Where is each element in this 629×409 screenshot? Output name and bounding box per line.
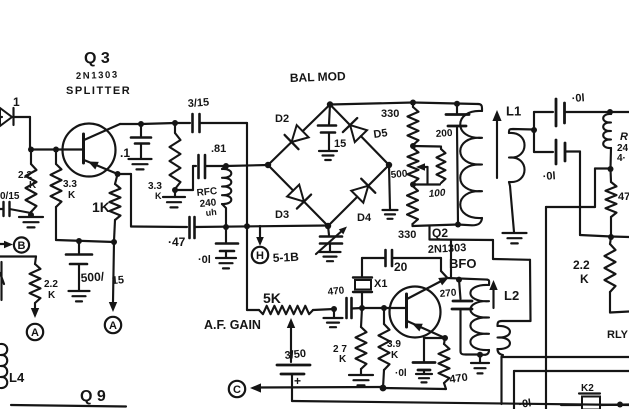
svg-text:0/15: 0/15 (0, 191, 20, 202)
label RFC (196, 186, 218, 199)
terminal C (229, 381, 245, 397)
node 47 bottom (608, 234, 614, 240)
label L1 (506, 104, 521, 119)
resistor 47 (606, 169, 617, 236)
ground under 470 cap node (324, 309, 343, 327)
wire .01 down to rail (579, 152, 581, 236)
wire emitter bottom line (131, 225, 187, 228)
diode D5 (top-right edge, points to top vertex) (330, 105, 389, 166)
label 3/50 (284, 348, 307, 362)
label uh (205, 207, 217, 218)
label 22 K (18, 170, 37, 191)
svg-text:100: 100 (428, 188, 446, 200)
label 3.3 K (63, 179, 77, 201)
node vertical feed junction (244, 223, 250, 229)
capacitor 0/15 (left edge) (0, 202, 31, 216)
svg-text:1: 1 (13, 95, 20, 109)
label L2 (504, 288, 519, 303)
transistor Q3 2N1303 (63, 124, 121, 177)
wire rail y357 (502, 356, 629, 358)
label 24 (cut) (617, 143, 629, 154)
svg-text:47: 47 (618, 191, 629, 203)
node 330/500 junction (410, 143, 416, 149)
node rail/330 top (410, 100, 416, 106)
capacitor 470 coupling (347, 298, 363, 318)
capacitor .01 (RFC bypass) (216, 227, 238, 257)
label D4 (357, 212, 372, 224)
wire collector feed path (546, 169, 611, 208)
svg-text:1K: 1K (92, 199, 110, 215)
label A.F. GAIN (204, 318, 261, 332)
svg-text:270: 270 (439, 288, 457, 300)
capacitor .81 series (193, 155, 226, 178)
svg-text:Q 9: Q 9 (80, 388, 106, 405)
svg-text:3.3: 3.3 (63, 179, 77, 190)
resistor 2.2K (right) (605, 237, 629, 313)
label 240 (199, 197, 217, 210)
label .01 (top right) (571, 92, 585, 105)
resistor 100 (437, 147, 446, 184)
ground under 22K (19, 217, 43, 227)
node bridge right vertex (386, 162, 392, 168)
svg-text:470: 470 (327, 285, 345, 298)
wire Q2 collector top (447, 278, 489, 285)
wire rail y236 (580, 235, 629, 237)
svg-text:·0l: ·0l (571, 92, 585, 105)
svg-text:·0l: ·0l (395, 368, 407, 379)
svg-text:.81: .81 (211, 143, 226, 155)
svg-text:L2: L2 (504, 288, 519, 303)
capacitor 20 (362, 250, 441, 266)
capacitor 500/15 electrolytic (66, 241, 92, 290)
node 200 cap top (454, 101, 460, 107)
svg-text:RLY: RLY (607, 329, 629, 341)
svg-text:2N1303: 2N1303 (76, 70, 119, 82)
label R (cut) (620, 131, 628, 143)
inductor L2 secondary (498, 321, 531, 357)
svg-text:·0l: ·0l (198, 254, 211, 266)
svg-text:D5: D5 (373, 127, 389, 141)
svg-text:3/15: 3/15 (187, 97, 209, 110)
label 470 (coupling cap) (327, 285, 345, 298)
label 330 (bottom) (398, 229, 416, 241)
node L2 primary bottom (477, 352, 483, 358)
ground under 27K (349, 375, 373, 385)
resistor 3.3K (Q3 base) (51, 150, 62, 241)
svg-text:Q2: Q2 (432, 226, 448, 240)
node RFC2 bottom (608, 166, 614, 172)
wire Q3 collector rail (120, 123, 190, 124)
node 3.3K top junction (53, 147, 59, 153)
transistor Q2 2N1303 BFO (390, 277, 450, 338)
svg-text:X1: X1 (374, 278, 387, 290)
node 500/15 top (76, 238, 82, 244)
inductor L4 (left edge, cut) (1, 344, 8, 388)
inductor RFC 240uh (222, 166, 231, 227)
svg-text:R: R (620, 131, 628, 143)
resistor 27K (356, 308, 367, 374)
wire arrow to terminal A1 (31, 303, 39, 318)
svg-text:·0l: ·0l (518, 397, 532, 409)
wire Q2 collector elbow (430, 240, 531, 322)
wire tank to 330 chain bottom (413, 225, 459, 227)
svg-text:500/: 500/ (80, 269, 105, 285)
label .01 (mid right) (542, 170, 556, 183)
svg-text:5K: 5K (263, 290, 281, 306)
svg-text:L4: L4 (9, 370, 25, 385)
svg-text:H: H (256, 250, 264, 262)
wire 500 bottom row (413, 183, 440, 185)
svg-text:D3: D3 (275, 209, 289, 221)
inductor L1 primary (458, 104, 482, 225)
label 2.2 K (right) (573, 258, 590, 286)
resistor 3.9K (379, 308, 390, 388)
diode D1 (input, partially cut at left edge) (0, 108, 30, 126)
diode D4 (bottom-right edge, points to right vertex) (328, 165, 389, 226)
label 1 (diode designator) (13, 95, 20, 109)
node 3.3K2 bottom (172, 187, 178, 193)
node RFC bottom (223, 224, 229, 230)
wire long vertical x546 (545, 207, 547, 409)
svg-text:3/50: 3/50 (284, 348, 307, 362)
inductor L2 primary (470, 285, 489, 355)
wire Q2 base (362, 307, 407, 309)
node .1 cap top (138, 121, 144, 127)
node RFC2 top (607, 109, 613, 115)
relay contact K2 (561, 394, 629, 409)
label .47 (168, 235, 186, 249)
wire .81 to bridge (226, 165, 268, 166)
label 2N1303 (Q2) (428, 242, 467, 256)
node bridge left vertex (265, 162, 271, 168)
label 5-1B (272, 250, 299, 265)
terminal B with arrow (0, 237, 29, 252)
label 500/15 (80, 269, 124, 287)
svg-text:K2: K2 (581, 383, 594, 394)
wire 20 cap to collector (441, 258, 447, 278)
node bridge bottom vertex (325, 223, 331, 229)
wire 3.3K2 to .81 (175, 166, 193, 190)
label .1 (120, 146, 130, 160)
ground under L1 secondary (503, 233, 527, 243)
label SPLITTER (66, 85, 131, 97)
label 500 (390, 169, 408, 181)
wire Q2-box tick (428, 226, 430, 240)
ground under 3.3K2 (163, 190, 185, 207)
node K2 right (617, 402, 623, 408)
wire bridge right vertex to ground (389, 165, 390, 209)
svg-text:Q 3: Q 3 (84, 50, 110, 67)
label D3 (275, 209, 289, 221)
node 22K bottom (28, 212, 34, 218)
resistor 5K pot (247, 306, 334, 314)
label 470 (emitter) (449, 372, 469, 386)
svg-text:·47: ·47 (168, 235, 186, 249)
svg-text:K: K (68, 190, 76, 201)
inductor L1 secondary (509, 129, 534, 232)
resistor 2.2K (B branch) (30, 264, 41, 303)
inductor RFC (right, 240/47uh) (603, 112, 611, 168)
node 500 bottom (410, 182, 416, 188)
resistor 470 (emitter) (439, 338, 450, 389)
ground under L2 (471, 355, 489, 373)
wire arrow to terminal H (256, 226, 264, 246)
wire bias bottom rail (56, 240, 114, 242)
ground under trimmer (320, 252, 341, 261)
wire bottom rail (292, 401, 629, 405)
wire Q3 emitter branch (118, 174, 131, 227)
capacitor 3/50 electrolytic (277, 365, 310, 401)
label 2.2 K (left) (44, 279, 58, 301)
label 5K (263, 290, 281, 306)
resistor 1K (110, 174, 121, 241)
terminal H (252, 247, 268, 263)
svg-text:D2: D2 (275, 113, 289, 125)
node bridge top vertex (327, 101, 333, 107)
label D5 (373, 127, 389, 141)
svg-text:500: 500 (390, 169, 408, 181)
wire L1 primary bottom (458, 223, 460, 225)
trimmer capacitor (bridge bottom) (316, 226, 347, 254)
label 20 (394, 260, 408, 274)
wire cap node vertical (533, 112, 535, 152)
crystal X1 (353, 258, 372, 308)
capacitor 15 (bridge top) (318, 105, 336, 151)
svg-text:4·: 4· (617, 153, 626, 164)
svg-text:K: K (29, 180, 37, 191)
label 0/15 (0, 191, 20, 202)
label D2 (275, 113, 289, 125)
svg-text:·0l: ·0l (542, 170, 556, 183)
svg-text:K: K (155, 191, 162, 201)
label L4 (9, 370, 25, 385)
label 200 (435, 128, 453, 140)
wire C-line to 470 bottom (383, 388, 446, 389)
node Q3 base junction A (28, 147, 34, 153)
svg-text:A.F. GAIN: A.F. GAIN (204, 318, 261, 332)
node X1 base junction (359, 305, 365, 311)
wire to terminal A2 (109, 242, 117, 312)
label Q2 (432, 226, 448, 240)
ground under 15 cap (319, 151, 337, 160)
node 270 cap top (456, 277, 462, 283)
arrow L2 tuning (489, 280, 497, 308)
wire bridge top to rail (330, 103, 413, 105)
wiper arrow 500 pot (416, 163, 428, 184)
wire bottom cut-off component (11, 405, 126, 407)
label 2N1303 (Q3) (76, 70, 119, 82)
wire input lead (0, 116, 2, 118)
svg-text:2N1303: 2N1303 (428, 242, 467, 256)
svg-text:K: K (339, 354, 347, 365)
ground under .1 (129, 159, 152, 169)
resistor 330 top (408, 103, 419, 146)
node Q3 emitter junction (115, 171, 121, 177)
label .01 (emitter) (395, 368, 407, 379)
label + (3/50) (294, 374, 301, 388)
label BFO (449, 256, 476, 271)
wiper arrow 5K (287, 318, 295, 362)
svg-text:D4: D4 (357, 212, 372, 224)
svg-text:uh: uh (205, 207, 217, 218)
node L1 sec / caps (531, 127, 537, 133)
label 47 (618, 191, 629, 203)
label .01 (bottom right) (518, 397, 532, 409)
svg-text:K: K (48, 290, 56, 301)
node 470cap ground branch (331, 306, 337, 312)
svg-text:5-1B: 5-1B (272, 250, 299, 265)
label 3.9 K (387, 339, 401, 361)
diode D2 (top-left edge, points to left vertex) (268, 105, 330, 166)
svg-text:3.9: 3.9 (387, 339, 401, 350)
svg-text:330: 330 (381, 108, 399, 120)
wire top rail right section (413, 103, 478, 105)
ground under 500/15 (69, 291, 90, 301)
wire 330/500 junction to 100 (413, 145, 440, 148)
wire box top edge (514, 371, 629, 409)
vertical wire top-rail to 5K pot (246, 123, 248, 310)
capacitor .01 (second right) (534, 140, 580, 164)
arrow L1 tuning (492, 110, 501, 178)
label Q9 (80, 388, 106, 405)
resistor 330 bottom (407, 186, 418, 226)
label BAL MOD (290, 69, 347, 85)
svg-text:330: 330 (398, 229, 416, 241)
label 15 (334, 138, 346, 150)
label X1 (374, 278, 387, 290)
label 330 (top) (381, 108, 399, 120)
node L1 primary bottom junction (455, 222, 461, 228)
svg-text:K: K (391, 350, 399, 361)
svg-text:A: A (31, 327, 39, 339)
label 27 K (333, 344, 347, 365)
wire rail to edge (top) (610, 111, 629, 113)
node 3.3K2 top (172, 120, 178, 126)
wire L2 sec down (500, 357, 502, 404)
capacitor .01 (emitter) (413, 338, 445, 373)
svg-text:470: 470 (449, 372, 469, 386)
svg-text:2.2: 2.2 (44, 279, 58, 290)
label K2 (581, 383, 594, 394)
node RFC top / .81 out (223, 163, 229, 169)
svg-text:15: 15 (334, 138, 346, 150)
wire diode to Q3 base (29, 117, 31, 150)
svg-text:2.2: 2.2 (573, 258, 590, 272)
label 1K (92, 199, 110, 215)
svg-text:SPLITTER: SPLITTER (66, 85, 131, 97)
capacitor 200 (446, 104, 469, 225)
label 3/15 (187, 97, 209, 110)
svg-text:K: K (580, 272, 589, 286)
ground under .01 (216, 258, 236, 268)
wire Q3 base line (30, 148, 84, 150)
capacitor .47 series (190, 217, 329, 238)
left-edge wire fragment (0, 262, 4, 300)
terminal A (under 1K) (105, 317, 121, 333)
label .01 (left) (198, 254, 211, 266)
wire B row (0, 257, 36, 265)
svg-text:B: B (18, 240, 26, 252)
svg-text:+: + (294, 374, 301, 388)
capacitor 3/15 series (193, 114, 248, 132)
label 100 (428, 188, 446, 200)
svg-text:.1: .1 (120, 146, 130, 160)
resistor 22K (26, 150, 37, 216)
ground under right vertex (383, 210, 398, 219)
capacitor 270 (452, 280, 480, 355)
label 4 (cut) (617, 153, 626, 164)
label .81 (211, 143, 226, 155)
terminal A (left) (27, 324, 43, 340)
ground under .01 emitter (416, 374, 432, 382)
diode D3 (bottom-left edge, points to bottom vertex) (268, 165, 328, 226)
svg-text:C: C (233, 384, 241, 396)
node C-line / 3.9K bottom (380, 385, 387, 392)
wire arrow into C (250, 383, 383, 392)
svg-text:A: A (109, 320, 117, 332)
resistor 500 pot (408, 148, 419, 183)
resistor 3.3K (collector) (170, 123, 181, 189)
capacitor .01 (top right) (534, 99, 610, 126)
node 3.9K top (381, 305, 387, 311)
svg-text:L1: L1 (506, 104, 521, 119)
svg-text:BFO: BFO (449, 256, 476, 271)
label 3.3 K (mid) (148, 181, 162, 201)
label RLY (607, 329, 629, 341)
node Q2 emitter junction (442, 335, 448, 341)
label Q3 (84, 50, 110, 67)
svg-text:20: 20 (394, 260, 408, 274)
svg-text:200: 200 (435, 128, 453, 140)
node 1K bottom (111, 239, 117, 245)
label 270 (cap) (439, 288, 457, 300)
capacitor .1 bypass (131, 124, 151, 158)
svg-text:BAL MOD: BAL MOD (290, 69, 347, 85)
